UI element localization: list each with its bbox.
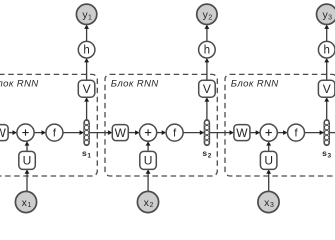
svg-text:3: 3 (328, 15, 332, 22)
block RNN B1 dashed boundary (0, 74, 97, 176)
wire s1 to W2 (89, 132, 109, 134)
svg-text:2: 2 (208, 152, 212, 159)
matrix box U1 (19, 151, 36, 169)
wire x2 to U2 (147, 172, 149, 191)
wire s1 to V1 (86, 100, 88, 120)
wire s2 to W3 (210, 132, 231, 134)
wire V1 to h1 (86, 61, 88, 80)
output node y2 (197, 4, 217, 24)
output node y3 (317, 4, 335, 24)
svg-text:Блок RNN: Блок RNN (231, 78, 279, 89)
wire f1 to s1 (63, 132, 81, 134)
wire W2 to +2 (128, 132, 136, 134)
block RNN B3 dashed boundary (225, 74, 335, 176)
wire f3 to s3 (305, 132, 322, 134)
wire h2 to y2 (206, 27, 208, 41)
input node x3 (258, 191, 279, 212)
activation node f1 (46, 124, 63, 141)
svg-text:W: W (236, 126, 248, 140)
wire s3 to right edge (329, 132, 335, 134)
svg-text:W: W (115, 126, 127, 140)
adder node +1 (17, 124, 34, 141)
wire +2 to f2 (157, 132, 164, 134)
svg-text:U: U (144, 154, 153, 168)
wire W1 to +1 (8, 132, 14, 134)
adder node +3 (260, 124, 277, 141)
state vector s2 (pill with units) (204, 120, 209, 146)
svg-text:h: h (83, 45, 89, 57)
svg-text:V: V (323, 82, 331, 96)
wire h1 to y1 (86, 27, 88, 41)
activation node f2 (166, 124, 183, 141)
matrix box V1 (78, 80, 95, 97)
svg-text:1: 1 (27, 202, 31, 209)
matrix box U3 (260, 151, 277, 169)
svg-text:V: V (203, 82, 211, 96)
input node x2 (137, 191, 158, 212)
svg-text:h: h (204, 45, 210, 57)
svg-text:h: h (323, 45, 329, 57)
svg-text:Блок RNN: Блок RNN (111, 78, 159, 89)
input node x1 (15, 191, 36, 212)
svg-text:U: U (23, 154, 32, 168)
adder node +2 (140, 124, 157, 141)
wire x3 to U3 (268, 172, 270, 191)
wire U2 to +2 (147, 144, 149, 151)
svg-text:1: 1 (88, 15, 92, 22)
wire W3 to +3 (250, 132, 257, 134)
matrix box V3 (318, 80, 335, 97)
block RNN B2 dashed boundary (105, 74, 217, 176)
svg-text:1: 1 (87, 152, 91, 159)
hidden output node h1 (78, 41, 95, 58)
svg-text:V: V (83, 82, 91, 96)
activation node f3 (288, 124, 305, 141)
hidden output node h3 (318, 41, 335, 58)
wire +1 to f1 (34, 132, 43, 134)
matrix box U2 (140, 151, 157, 169)
state vector s3 (pill with units) (324, 120, 329, 146)
svg-text:Блок RNN: Блок RNN (0, 78, 39, 89)
svg-text:W: W (0, 126, 6, 140)
wire U1 to +1 (26, 144, 28, 151)
wire +3 to f3 (277, 132, 284, 134)
wire V2 to h2 (206, 61, 208, 80)
wire f2 to s2 (183, 132, 201, 134)
matrix box V2 (199, 80, 216, 97)
svg-text:s: s (82, 148, 87, 158)
svg-text:s: s (202, 148, 207, 158)
wire U3 to +3 (268, 144, 270, 151)
matrix box W2 (112, 125, 128, 141)
hidden output node h2 (199, 41, 216, 58)
wire V3 to h3 (326, 61, 328, 80)
wire h3 to y3 (326, 27, 328, 41)
state vector s1 (pill with units) (84, 120, 89, 146)
matrix box W3 (234, 125, 250, 141)
svg-text:3: 3 (270, 202, 274, 209)
matrix box W1 (0, 125, 8, 141)
wire s3 to V3 (326, 100, 328, 120)
wire x1 to U1 (26, 172, 28, 191)
output node y1 (76, 4, 96, 24)
svg-text:3: 3 (327, 152, 331, 159)
svg-text:2: 2 (149, 202, 153, 209)
svg-text:2: 2 (208, 15, 212, 22)
svg-text:U: U (264, 154, 273, 168)
wire s2 to V2 (206, 100, 208, 120)
svg-text:s: s (322, 148, 327, 158)
